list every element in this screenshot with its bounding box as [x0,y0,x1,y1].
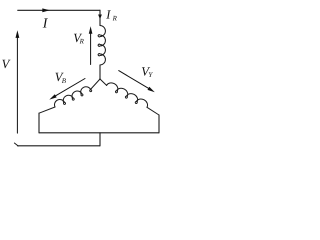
inductor L_R (vertical winding) [98,26,105,66]
wire left vertical to bottom bus [38,113,40,133]
wire bottom bus [39,132,159,134]
inductor L_B (left winding) [53,85,92,109]
wire neutral lead left [18,145,101,147]
wire neutral stub down [99,133,101,146]
label V_B [55,70,67,85]
svg-text:I: I [42,17,49,32]
label I [42,17,49,32]
voltage arrow V_R [89,26,93,64]
current arrow I_R [98,15,102,20]
svg-text:IR: IR [105,8,117,23]
neutral lead end tick [14,143,18,146]
voltage arrow V_B [49,79,85,100]
wire top-right corner down [99,10,101,25]
label V_R [73,31,84,45]
wire node to left winding [90,79,100,90]
wire left winding to corner [39,107,55,113]
svg-text:VY: VY [141,64,153,79]
label I_R [105,8,117,23]
wire right winding to corner [147,107,159,115]
svg-text:VB: VB [55,70,67,85]
svg-text:V: V [2,57,11,71]
wire node to right winding [100,79,107,85]
wire right vertical to bottom bus [158,115,160,133]
voltage arrow V_Y [119,71,155,93]
wire coil to node [99,65,101,79]
label V_Y [141,64,153,79]
inductor L_Y (right winding) [106,81,150,109]
svg-text:VR: VR [73,31,84,45]
label V [2,57,11,71]
wire top horizontal [18,9,100,11]
current arrow I [42,8,50,12]
node star point [99,78,100,79]
voltage arrow V (source) [16,30,20,133]
